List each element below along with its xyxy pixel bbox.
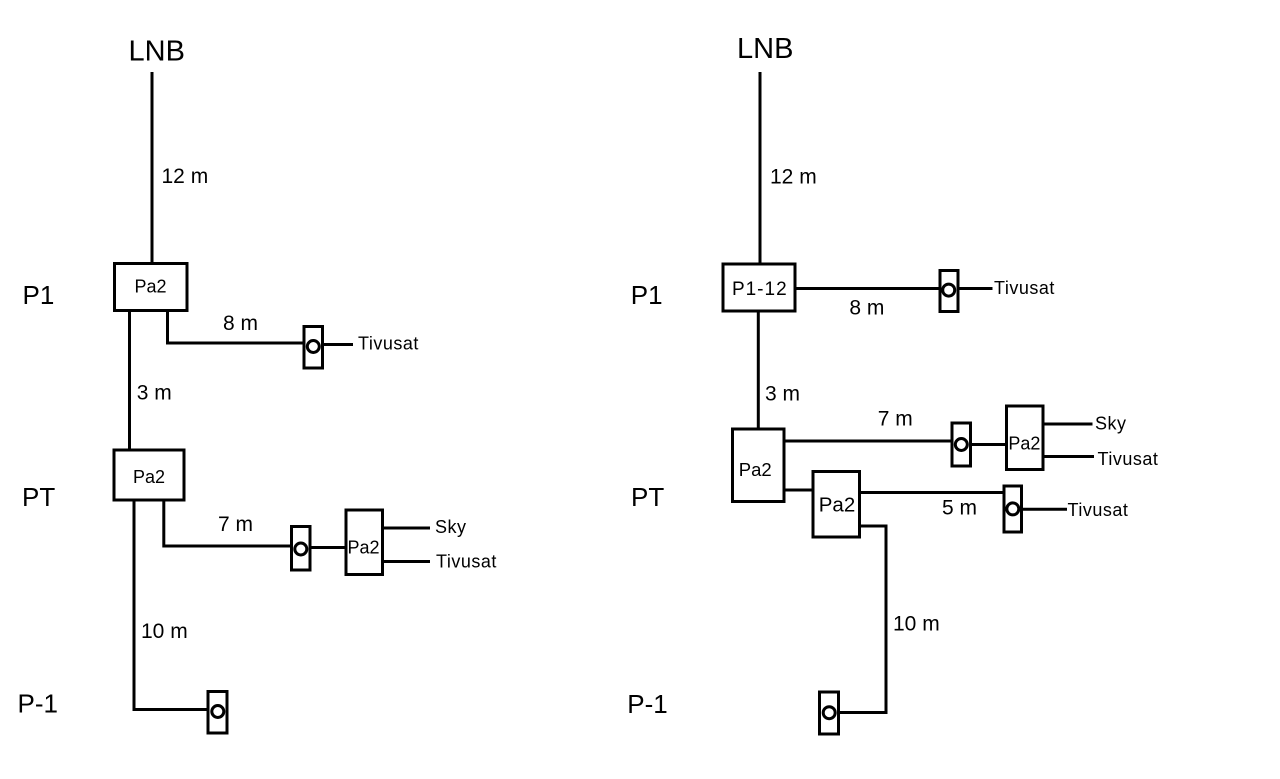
splitter box Pa2 second at PT (right) (813, 472, 860, 538)
splitter box Pa2 at floor P1 (left) (115, 264, 188, 311)
outlet circle at P-1 (right) (823, 707, 835, 719)
wire splitter to Tivusat receiver (right, after 7 m outlet) (1045, 455, 1095, 458)
svg-text:Tivusat: Tivusat (994, 278, 1055, 298)
svg-text:8 m: 8 m (223, 312, 258, 335)
wire Pa2(PT) to outlet, 7 m run (left) (164, 502, 290, 547)
multiswitch box P1-12 at floor P1 (right) (723, 264, 795, 311)
wire Pa2(PT) to outlet, 7 m run (right) (786, 440, 951, 443)
wall outlet at P-1 (right) (820, 692, 839, 734)
svg-text:Sky: Sky (435, 517, 467, 537)
svg-text:P-1: P-1 (18, 689, 58, 719)
outlet circle at P1 (right) (943, 284, 955, 296)
svg-text:Pa2: Pa2 (1008, 434, 1040, 454)
wire outlet to Tivusat receiver (right, 5 m outlet) (1023, 508, 1067, 511)
svg-text:LNB: LNB (737, 33, 793, 65)
svg-text:Tivusat: Tivusat (358, 334, 419, 354)
svg-text:12 m: 12 m (162, 165, 209, 188)
wall outlet at P1 (right) (940, 271, 958, 312)
splitter box Pa2 after PT outlet (left) (346, 510, 383, 575)
wall outlet at P1 (left) (304, 327, 323, 369)
wire outlet to Tivusat receiver (left P1) (324, 343, 353, 346)
splitter box Pa2 at floor PT (right) (733, 429, 785, 502)
svg-text:P1: P1 (23, 280, 55, 310)
wire P1-12 to Pa2(PT), 3 m drop (right) (757, 313, 760, 428)
wall outlet at P-1 (left) (208, 692, 227, 734)
splitter box Pa2 after 7 m outlet (right) (1007, 406, 1044, 470)
svg-text:Pa2: Pa2 (739, 459, 772, 480)
svg-text:Tivusat: Tivusat (1098, 449, 1159, 469)
svg-text:7 m: 7 m (218, 513, 253, 536)
wire Pa2(P1) to outlet, left diagram, 8 m run (168, 312, 303, 343)
wire Pa2(PT) down to P-1 outlet, 10 m run (left) (134, 502, 207, 710)
wire Pa2(P1) to Pa2(PT), left diagram, 3 m drop (128, 312, 131, 449)
wire outlet to Pa2 splitter (right, after 7 m outlet) (972, 443, 1007, 446)
wall outlet on 5 m run (right) (1004, 486, 1022, 532)
svg-text:Tivusat: Tivusat (1068, 500, 1129, 520)
svg-text:PT: PT (631, 482, 664, 512)
svg-text:Pa2: Pa2 (134, 276, 166, 296)
svg-text:Sky: Sky (1095, 414, 1127, 434)
svg-text:Pa2: Pa2 (133, 467, 165, 487)
svg-text:10 m: 10 m (141, 620, 188, 643)
wire Pa2(PT) to second Pa2 splitter stub (right) (786, 489, 815, 492)
wire P1-12 to outlet, 8 m run (right) (797, 287, 940, 290)
wire second Pa2 to outlet, 5 m run (right) (861, 491, 1003, 494)
svg-text:Pa2: Pa2 (819, 494, 855, 517)
svg-text:3 m: 3 m (137, 381, 172, 404)
svg-text:5 m: 5 m (942, 497, 977, 520)
svg-text:P-1: P-1 (627, 689, 667, 719)
svg-text:Pa2: Pa2 (347, 538, 379, 558)
svg-text:Tivusat: Tivusat (436, 552, 497, 572)
outlet circle at PT (left) (295, 543, 307, 555)
wire second Pa2 down to P-1 outlet, 10 m run (right) (840, 526, 886, 713)
outlet circle at P1 (left) (307, 341, 319, 353)
svg-text:P1: P1 (631, 280, 663, 310)
svg-text:12 m: 12 m (770, 166, 817, 189)
wall outlet on 7 m run (right) (952, 423, 971, 466)
svg-text:P1-12: P1-12 (732, 279, 788, 300)
outlet circle at P-1 (left) (212, 706, 224, 718)
wire splitter to Sky receiver (left) (384, 527, 430, 530)
svg-text:8 m: 8 m (849, 297, 884, 320)
svg-text:LNB: LNB (129, 36, 185, 68)
splitter box Pa2 at floor PT (left) (114, 450, 184, 500)
svg-text:7 m: 7 m (878, 408, 913, 431)
wire outlet to Tivusat receiver (right P1) (960, 287, 993, 290)
wall outlet at PT (left) (292, 527, 311, 571)
svg-text:10 m: 10 m (893, 612, 940, 635)
wire splitter to Tivusat receiver (left PT) (384, 560, 430, 563)
outlet circle on 5 m run (right) (1007, 503, 1019, 515)
outlet circle on 7 m run (right) (955, 439, 967, 451)
wire outlet to Pa2 splitter (left PT) (312, 546, 347, 549)
svg-text:PT: PT (22, 482, 55, 512)
wire LNB to multiswitch P1-12, right diagram, 12 m drop (759, 72, 762, 263)
wire LNB to splitter Pa2, left diagram, 12 m drop (151, 72, 154, 262)
svg-text:3 m: 3 m (765, 383, 800, 406)
wire splitter to Sky receiver (right) (1045, 423, 1093, 426)
